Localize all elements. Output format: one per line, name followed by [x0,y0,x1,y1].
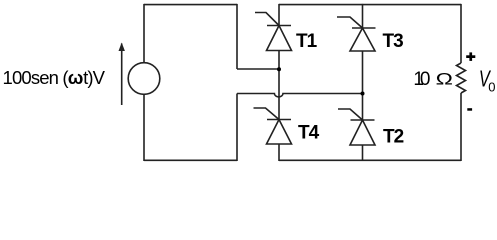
thyristor T4 symbol [254,108,292,144]
thyristor T2 symbol [338,109,375,145]
svg-text:0: 0 [420,69,431,90]
thyristor T3 symbol [337,17,376,51]
wire source-top to bridge node A (237,69)-(279,69) [237,68,279,70]
svg-text:100sen (ωt)V: 100sen (ωt)V [3,67,106,88]
wire top rail (279,4)-(461,4) [279,4,461,6]
svg-text:0: 0 [488,79,495,94]
wire mid horizontal with hop to node B [237,94,363,97]
wire bottom rail (279,160)-(461,160) [279,159,461,161]
svg-text:T3: T3 [383,31,404,52]
wire right vertical bottom (461,93)-(461,160) [460,93,462,161]
wire top-left loop top (144,4)-(237,4) [144,4,237,6]
junction dot node A [277,67,281,71]
wire T2 anode stub (362.5,145)-(362.5,160) [362,145,364,161]
wire T4 anode stub (279,144)-(279,160) [278,144,280,161]
arrow source polarity [119,43,125,106]
svg-text:T1: T1 [296,31,318,52]
wire T1-T4 branch middle (279,25.5)-(279,119) [278,26,280,120]
wire left vertical source bottom (144,95)-(144,160) [143,94,145,161]
ac source V1 circle [128,63,160,95]
wire bottom-left loop (144,160)-(237,160) [144,159,237,161]
wire mid-left vertical upper (237,4)-(237,69) [236,4,238,69]
label plus polarity [466,52,475,61]
wire T3 branch cathode lead (362.5,4)-(362.5,28) [362,4,364,28]
wire left vertical source top (144,4)-(144,63) [143,4,145,63]
junction dot node B [361,92,365,96]
wire T3-T2 branch middle (362.5,28)-(362.5,119) [362,28,364,120]
wire T1 branch cathode lead (279,4)-(279,25.5) [278,4,280,26]
label minus polarity [467,108,472,111]
svg-text:Ω: Ω [436,71,453,89]
svg-text:T4: T4 [298,123,320,144]
wire mid-left vertical lower (237,160)-(237,93.5) [236,94,238,162]
svg-text:T2: T2 [383,127,404,148]
wire right vertical top (461,4)-(461,63) [460,4,462,63]
resistor R load 10 ohm zigzag [457,63,466,93]
thyristor T1 symbol [255,13,292,51]
